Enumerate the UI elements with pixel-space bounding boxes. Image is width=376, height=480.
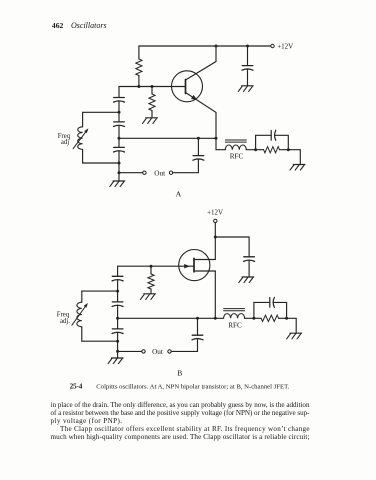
svg-text:A: A (176, 190, 182, 199)
svg-text:adj.: adj. (60, 318, 70, 325)
svg-text:The Clapp oscillator offers ex: The Clapp oscillator offers excellent st… (60, 425, 310, 433)
svg-text:B: B (177, 369, 182, 378)
svg-text:Out: Out (152, 348, 163, 356)
svg-text:462: 462 (52, 21, 64, 30)
svg-text:+12V: +12V (277, 42, 293, 50)
svg-text:Oscillators: Oscillators (71, 21, 107, 30)
svg-text:RFC: RFC (230, 153, 244, 161)
svg-text:adj: adj (61, 139, 69, 146)
svg-text:25-4: 25-4 (70, 383, 83, 390)
svg-text:Colpitts oscillators. At A, NP: Colpitts oscillators. At A, NPN bipolar … (96, 383, 289, 390)
svg-text:RFC: RFC (228, 322, 242, 330)
svg-text:Out: Out (154, 169, 165, 177)
svg-text:ply voltage (for PNP).: ply voltage (for PNP). (51, 417, 123, 425)
svg-text:in place of the drain. The onl: in place of the drain. The only differen… (51, 401, 310, 409)
svg-text:+12V: +12V (207, 208, 223, 216)
svg-text:of a resistor between the base: of a resistor between the base and the p… (51, 409, 311, 417)
svg-text:much when high-quality compone: much when high-quality components are us… (51, 433, 310, 441)
